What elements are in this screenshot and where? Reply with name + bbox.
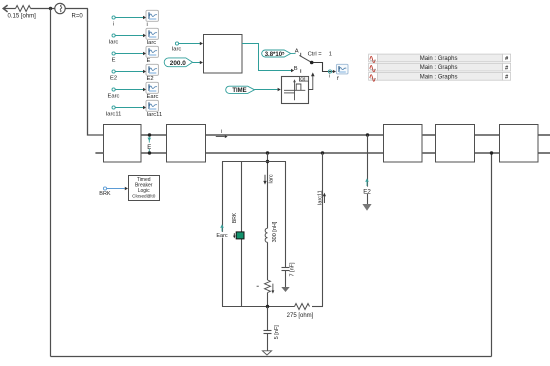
output channel meter 3 xyxy=(146,46,158,57)
svg-text:E2: E2 xyxy=(363,188,371,195)
ground for 7nF xyxy=(281,287,289,292)
output channel meter 1 xyxy=(146,10,158,21)
svg-text:E2: E2 xyxy=(147,76,154,82)
junction dot xyxy=(266,305,269,308)
breaker branch wire xyxy=(241,162,243,307)
Earc arrow xyxy=(220,224,224,231)
svg-text:B: B xyxy=(294,66,298,72)
node xyxy=(328,70,331,73)
wire xyxy=(179,43,201,45)
capacitor 5nF xyxy=(264,331,272,334)
bus block B xyxy=(167,125,206,163)
channel meter 3 input node xyxy=(112,52,115,55)
resistor 275 ohm xyxy=(295,304,310,310)
wire xyxy=(4,8,16,10)
svg-text:i: i xyxy=(329,74,330,80)
svg-text:Earc: Earc xyxy=(147,94,159,100)
svg-text:275 [ohm]: 275 [ohm] xyxy=(287,313,314,319)
wire xyxy=(115,71,143,73)
svg-text:Earc: Earc xyxy=(216,233,228,239)
output channel meter 6 xyxy=(146,100,158,111)
voltmeter E between blocks xyxy=(146,137,153,152)
bus block D xyxy=(436,125,475,163)
wire bus into arc branch xyxy=(267,153,269,228)
comparator U3 xyxy=(282,76,309,103)
sub-circuit top edge xyxy=(222,161,286,163)
bus block C xyxy=(384,125,423,163)
graph frame row 3 xyxy=(369,73,511,82)
switch lever xyxy=(299,55,311,62)
bottom bus wires xyxy=(141,152,550,154)
svg-text:i: i xyxy=(113,21,114,27)
svg-text:0.15 [ohm]: 0.15 [ohm] xyxy=(8,14,37,20)
variable resistor xyxy=(257,280,275,294)
switch pivot xyxy=(310,61,314,65)
label Earc xyxy=(215,232,228,239)
wire xyxy=(267,293,269,307)
wire block output to switch B xyxy=(242,44,291,71)
svg-text:A: A xyxy=(295,49,299,55)
channel meter 6 input node xyxy=(112,106,115,109)
svg-text:TIME: TIME xyxy=(232,88,246,94)
svg-text:300 [nH]: 300 [nH] xyxy=(272,221,278,242)
svg-text:Iarc: Iarc xyxy=(147,40,157,46)
channel meter 1 input node xyxy=(112,16,115,19)
wire xyxy=(115,89,143,91)
timed breaker logic block xyxy=(129,176,160,201)
ground for 5nF xyxy=(262,351,271,355)
breaker switch (green) xyxy=(233,232,244,239)
wire switch to meter xyxy=(313,63,332,72)
svg-text:Iarc: Iarc xyxy=(268,174,274,183)
wire xyxy=(115,17,143,19)
wire xyxy=(291,53,296,55)
sub-circuit bottom edge xyxy=(222,306,295,308)
wire bottom rail xyxy=(51,356,492,358)
arc model block U2 xyxy=(204,35,243,74)
TIME source xyxy=(226,86,255,94)
junction dot xyxy=(266,160,269,163)
wire to block A xyxy=(88,9,104,136)
wire xyxy=(255,89,278,91)
svg-text:Iarc11: Iarc11 xyxy=(147,112,163,118)
svg-text:3.8*105: 3.8*105 xyxy=(265,50,285,58)
svg-text:Iarc: Iarc xyxy=(172,47,182,53)
svg-text:Closed@t0: Closed@t0 xyxy=(132,193,156,198)
wire xyxy=(65,8,88,10)
AC source xyxy=(55,3,65,13)
wire xyxy=(285,271,287,288)
wire BRK xyxy=(107,188,125,190)
svg-text:f: f xyxy=(337,76,340,82)
input node Iarc xyxy=(175,42,178,45)
graph frame row 1 xyxy=(369,54,511,63)
bus block E xyxy=(500,125,539,163)
graph frame row 2 xyxy=(369,63,511,72)
bus block A xyxy=(104,125,142,163)
wire xyxy=(267,242,269,280)
comparator output to switch control xyxy=(309,76,313,90)
channel meter 4 input node xyxy=(112,70,115,73)
wire xyxy=(31,8,55,10)
svg-text:7 [nF]: 7 [nF] xyxy=(290,262,296,277)
channel meter 5 input node xyxy=(112,88,115,91)
top bus wires xyxy=(141,134,550,136)
BRK output node xyxy=(103,187,106,190)
svg-text:E: E xyxy=(147,58,151,64)
wire xyxy=(115,107,143,109)
wire right vertical xyxy=(491,153,493,357)
junction dots on bus xyxy=(148,133,151,136)
Iarc11 branch (right edge) xyxy=(322,153,324,307)
svg-text:i: i xyxy=(147,22,148,28)
svg-text:i: i xyxy=(221,129,222,135)
output channel meter 5 xyxy=(146,82,158,93)
svg-text:5 [nF]: 5 [nF] xyxy=(274,325,280,340)
wire left vertical xyxy=(50,9,52,357)
ammeter label i after block B xyxy=(216,129,228,138)
open stub at block A xyxy=(95,152,103,154)
svg-text:200.0: 200.0 xyxy=(170,60,186,67)
7nF branch wire xyxy=(285,162,287,268)
output channel meter 2 xyxy=(146,28,158,39)
svg-text:Ctl: Ctl xyxy=(300,76,305,81)
inductor 300nH xyxy=(265,228,267,242)
svg-text:Iarc11: Iarc11 xyxy=(106,111,122,117)
output channel meter 4 xyxy=(146,64,158,75)
resistor 0.15 ohm xyxy=(8,6,37,20)
constant 200.0 xyxy=(164,58,192,67)
Iarc arrow xyxy=(263,175,266,185)
svg-text:BRK: BRK xyxy=(99,191,111,197)
svg-text:Iarc11: Iarc11 xyxy=(317,190,323,205)
svg-text:Ctrl =: Ctrl = xyxy=(308,52,323,58)
sub-circuit left edge (Earc branch) xyxy=(222,162,224,307)
svg-text:E: E xyxy=(147,145,151,151)
wire xyxy=(115,53,143,55)
svg-text:R=0: R=0 xyxy=(72,14,84,20)
external connection arrow xyxy=(3,5,7,12)
wire xyxy=(193,62,201,64)
output channel meter 7 xyxy=(336,64,348,74)
svg-text:Earc: Earc xyxy=(108,93,120,99)
node junction xyxy=(49,7,52,10)
ground for E2 xyxy=(362,204,371,211)
svg-text:1: 1 xyxy=(329,52,332,58)
wire xyxy=(267,334,269,351)
wire to 5nF xyxy=(267,307,269,331)
svg-text:E: E xyxy=(112,57,116,63)
svg-text:Iarc: Iarc xyxy=(109,39,119,45)
wire xyxy=(115,35,143,37)
constant 3.8e5 xyxy=(262,50,291,58)
Iarc11 arrow xyxy=(323,193,326,203)
channel meter 2 input node xyxy=(112,34,115,37)
svg-text:BRK: BRK xyxy=(232,212,238,223)
voltmeter E2 stub xyxy=(362,135,371,204)
capacitor 7nF xyxy=(282,268,290,271)
svg-text:E2: E2 xyxy=(110,75,117,81)
